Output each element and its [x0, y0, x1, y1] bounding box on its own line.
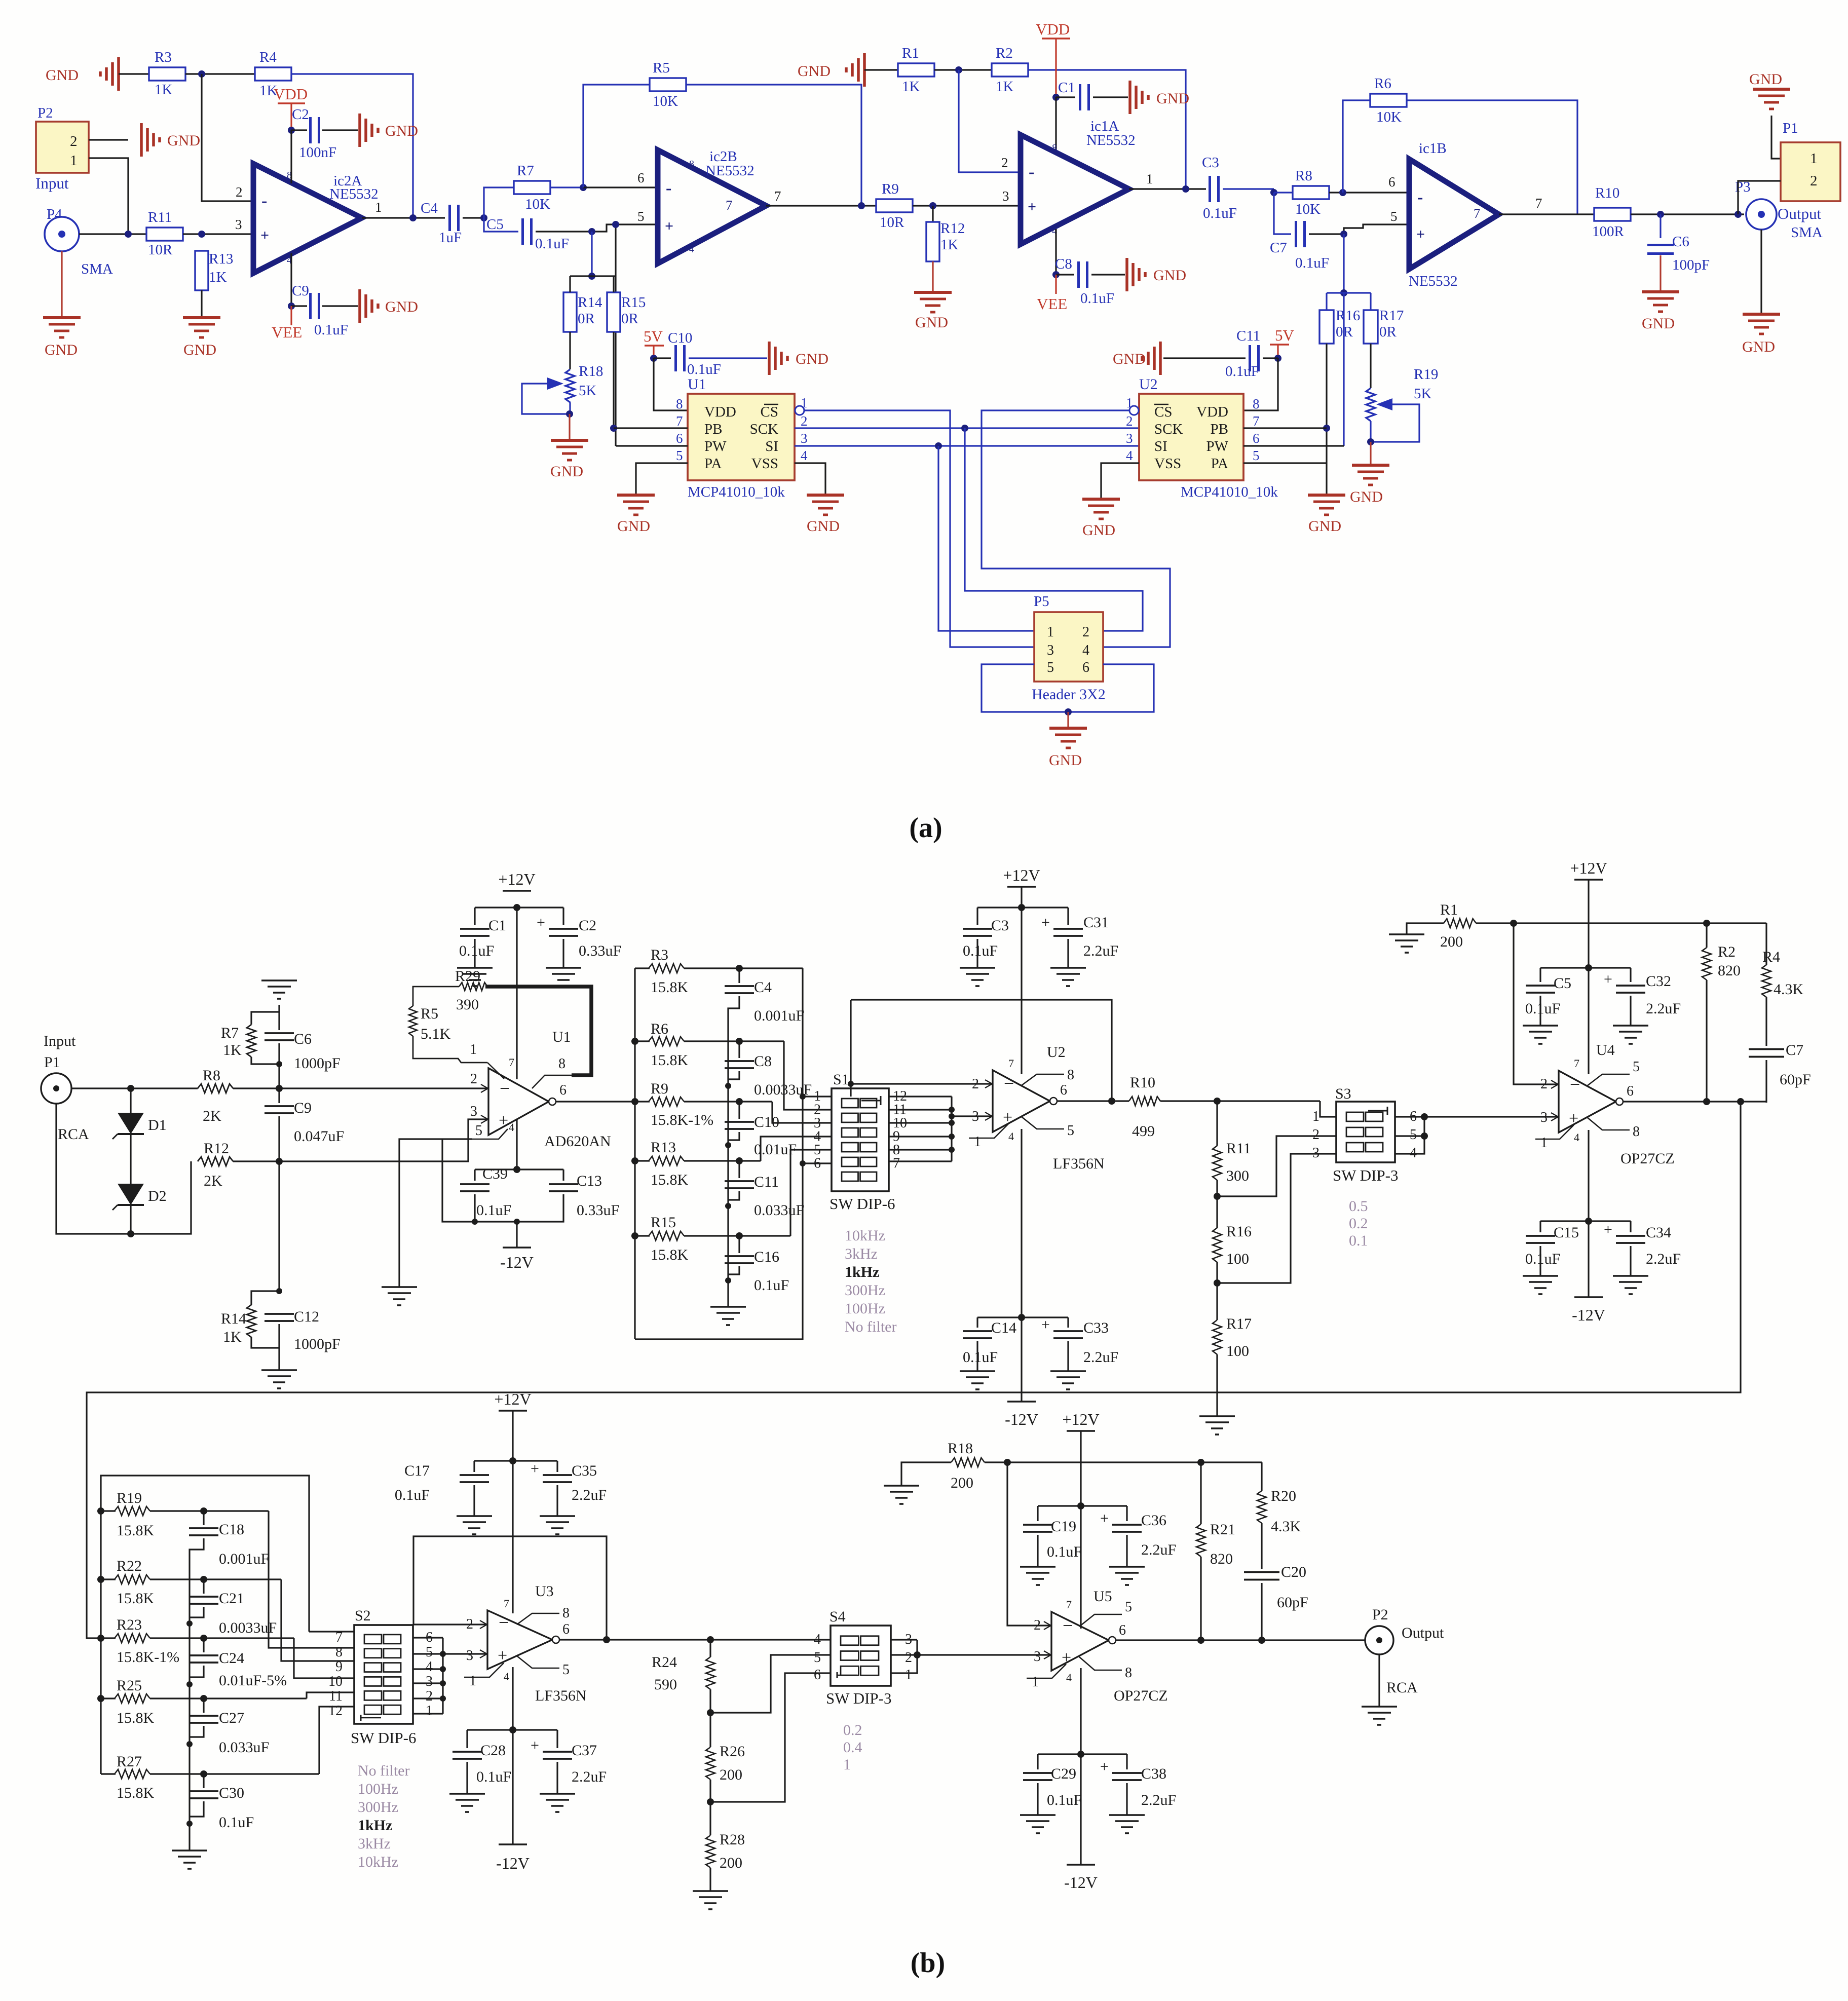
svg-text:4: 4 — [1574, 1131, 1579, 1144]
svg-text:C3: C3 — [1202, 155, 1219, 171]
node PB junction (U2) — [1323, 425, 1330, 432]
node C9/VEE — [288, 303, 295, 310]
svg-text:R3: R3 — [651, 947, 668, 963]
svg-text:R5: R5 — [653, 60, 670, 76]
svg-text:0.1uF: 0.1uF — [963, 1349, 998, 1366]
svg-text:R19: R19 — [117, 1490, 142, 1506]
resistor R21 (820) — [1200, 1462, 1201, 1524]
wire C11 to node — [1263, 357, 1278, 359]
svg-text:+: + — [537, 914, 545, 931]
node C1 — [1052, 94, 1060, 101]
node R2b top — [1703, 920, 1710, 927]
svg-text:2: 2 — [426, 1688, 433, 1704]
capacitor C6 (1000pF) — [278, 1012, 280, 1030]
svg-text:8: 8 — [1125, 1665, 1132, 1681]
svg-text:3: 3 — [426, 1674, 433, 1689]
U4 pin8 stub — [1587, 1117, 1630, 1130]
svg-text:C38: C38 — [1141, 1765, 1166, 1782]
wire branch down to C5 — [484, 218, 518, 232]
svg-text:GND: GND — [167, 132, 200, 149]
node U1 PB — [610, 425, 617, 432]
capacitor C19 (0.1uF) — [1037, 1506, 1038, 1521]
svg-text:+: + — [665, 218, 673, 235]
capacitor C18 (0.001uF) — [203, 1511, 204, 1525]
svg-text:GND: GND — [796, 351, 828, 367]
svg-text:6: 6 — [676, 431, 683, 446]
svg-text:+: + — [1041, 1316, 1050, 1333]
svg-text:0.1uF: 0.1uF — [314, 322, 348, 338]
capacitor C37 (2.2uF) — [556, 1730, 558, 1748]
ground GND (P4) — [61, 317, 62, 318]
wire R27 row — [150, 1773, 319, 1775]
wire R3 row — [684, 967, 803, 969]
svg-text:-12V: -12V — [1064, 1873, 1098, 1892]
svg-text:+: + — [1041, 914, 1050, 931]
svg-text:7: 7 — [1535, 196, 1542, 211]
wire U1 CS to P5 — [804, 410, 1034, 647]
svg-text:GND: GND — [550, 463, 583, 480]
svg-text:2.2uF: 2.2uF — [1141, 1541, 1176, 1558]
ground GND (C2) — [358, 114, 361, 147]
ground (C2) — [562, 939, 564, 968]
svg-text:6: 6 — [562, 1621, 570, 1637]
ground GND (R12) — [932, 291, 933, 293]
wire R17 to ground — [1216, 1354, 1218, 1416]
svg-text:8: 8 — [1633, 1124, 1640, 1140]
svg-text:5V: 5V — [1275, 326, 1295, 344]
node C9 top — [276, 1085, 283, 1092]
wire pin6 into ic2B — [583, 186, 658, 188]
wire C7b to output row — [1765, 1060, 1767, 1103]
capacitor C29 (0.1uF) — [1037, 1754, 1038, 1769]
potentiometer R18 5K — [565, 369, 575, 402]
svg-text:0.1uF: 0.1uF — [1225, 363, 1259, 380]
svg-text:C32: C32 — [1646, 973, 1671, 990]
resistor R22 (15.8K) — [97, 1576, 104, 1583]
svg-text:R13: R13 — [651, 1139, 676, 1156]
wire fan R22 to S2 pin9 — [281, 1579, 354, 1661]
svg-text:R12: R12 — [940, 220, 965, 237]
svg-text:VDD: VDD — [1036, 20, 1070, 38]
svg-text:590: 590 — [654, 1676, 677, 1693]
svg-text:SMA: SMA — [81, 261, 113, 277]
svg-text:5: 5 — [1067, 1123, 1074, 1139]
wire C14/C33 rail — [977, 1316, 1068, 1318]
svg-text:R10: R10 — [1130, 1074, 1155, 1091]
svg-text:60pF: 60pF — [1780, 1071, 1811, 1088]
resistor R17 — [1364, 310, 1378, 344]
svg-text:15.8K: 15.8K — [651, 979, 689, 996]
svg-text:P2: P2 — [37, 105, 53, 121]
node R7 bottom — [276, 1061, 282, 1067]
wire -12V stem (U5) — [1080, 1668, 1081, 1754]
svg-text:6: 6 — [1253, 431, 1260, 446]
svg-text:S2: S2 — [355, 1607, 371, 1624]
resistor R9 — [876, 199, 913, 212]
svg-text:-12V: -12V — [1005, 1410, 1038, 1428]
wire to pin2 ic1A — [959, 70, 1021, 172]
svg-text:R15: R15 — [651, 1214, 676, 1231]
capacitor C16 (0.1uF) — [738, 1236, 740, 1253]
svg-text:MCP41010_10k: MCP41010_10k — [688, 484, 785, 500]
ground (P2) — [1362, 1706, 1397, 1708]
op-amp U3 LF356N — [487, 1610, 552, 1669]
wire R18 to GND — [569, 414, 570, 440]
svg-text:No filter: No filter — [358, 1762, 409, 1779]
wire stage2 top rail — [101, 1476, 309, 1632]
svg-text:Output: Output — [1778, 205, 1822, 222]
wire SCK to P5 pin2 — [965, 428, 1143, 631]
svg-text:R7: R7 — [221, 1025, 239, 1041]
wire R19 to GND — [1370, 442, 1371, 465]
wire ic2B output row — [766, 205, 877, 206]
wire inter-stage link — [87, 1102, 1741, 1638]
ground (C35) — [540, 1515, 575, 1517]
svg-text:GND: GND — [807, 518, 840, 535]
U3 pin8 stub — [517, 1613, 559, 1625]
svg-text:100: 100 — [1226, 1343, 1249, 1360]
svg-text:+: + — [499, 1111, 508, 1130]
capacitor C14 (0.1uF) — [976, 1317, 978, 1328]
capacitor C21 (0.0033uF) — [203, 1579, 204, 1594]
resistor R5 (5.1K) — [409, 1006, 417, 1036]
svg-text:C4: C4 — [421, 200, 438, 216]
svg-text:R3: R3 — [155, 49, 172, 65]
node R11/R13 junction — [198, 231, 205, 238]
ground GND (P3) — [1760, 313, 1762, 315]
svg-text:0.1uF: 0.1uF — [963, 942, 998, 959]
wire SCK bus — [795, 427, 1139, 429]
bold gain loop (U1) — [485, 987, 591, 1075]
svg-text:R25: R25 — [117, 1677, 142, 1694]
svg-text:R4: R4 — [1762, 949, 1780, 965]
svg-text:1: 1 — [1540, 1135, 1548, 1151]
svg-text:R9: R9 — [882, 181, 899, 197]
wire C6 to input row — [278, 1043, 280, 1088]
svg-text:2: 2 — [905, 1650, 912, 1666]
svg-text:7: 7 — [1066, 1598, 1072, 1611]
svg-text:R18: R18 — [579, 363, 603, 380]
wire fan R9 to S1 pin3 — [772, 1102, 832, 1123]
ground GND (U1 PA) — [635, 494, 636, 496]
wire R28 to ground — [709, 1868, 711, 1891]
ground GND (P5) — [1067, 727, 1069, 729]
node SI tap — [935, 442, 942, 449]
resistor R17b (100) — [1213, 1320, 1222, 1354]
svg-text:0.5: 0.5 — [1349, 1198, 1368, 1215]
wire U2 PB to R16 net — [1243, 427, 1327, 429]
svg-text:2: 2 — [1312, 1127, 1319, 1143]
wire R13 to GND — [201, 290, 202, 318]
U5 pin8 stub — [1079, 1657, 1122, 1670]
capacitor C8 (0.0033uF) — [738, 1041, 740, 1058]
svg-text:SCK: SCK — [750, 421, 778, 437]
wire to U5 pin2 — [1007, 1462, 1051, 1626]
wire R16/R17 top connector — [1327, 292, 1371, 293]
svg-text:0R: 0R — [1379, 324, 1397, 340]
node C2/VDD — [288, 127, 295, 134]
pin5 ref stub — [472, 1129, 508, 1139]
wire R15 top — [613, 276, 614, 292]
wire to R14/R15 junction — [591, 232, 592, 276]
node C6/P3 — [1657, 211, 1664, 218]
svg-text:1K: 1K — [223, 1042, 242, 1059]
wire P2 pin1 to input node — [89, 158, 128, 234]
ground (stage2 caps) — [172, 1849, 207, 1852]
op-amp ic2A NE5532 — [253, 164, 362, 273]
capacitor C3b (0.1uF) — [976, 908, 978, 925]
svg-text:Output: Output — [1402, 1625, 1444, 1641]
svg-text:R5: R5 — [421, 1005, 438, 1022]
svg-text:0.2: 0.2 — [1349, 1215, 1368, 1232]
wire R6 row — [684, 1040, 784, 1042]
svg-text:C4: C4 — [754, 979, 772, 996]
zener diode D1 — [130, 1088, 131, 1113]
capacitor C27 (0.033uF) — [203, 1698, 204, 1713]
wire pin8 stem ic1A — [1055, 97, 1057, 155]
svg-text:LF356N: LF356N — [535, 1687, 587, 1704]
svg-text:10: 10 — [328, 1674, 343, 1689]
node C10/5V — [650, 355, 657, 362]
svg-text:C30: C30 — [219, 1785, 244, 1801]
svg-text:C11: C11 — [754, 1174, 779, 1190]
resistor R18b (200) — [901, 1462, 951, 1486]
node R12 junction — [929, 202, 936, 209]
svg-text:C39: C39 — [482, 1165, 508, 1182]
svg-text:1: 1 — [905, 1667, 912, 1683]
svg-text:1kHz: 1kHz — [358, 1817, 392, 1834]
wire C12 to GND — [278, 1324, 280, 1370]
svg-text:2: 2 — [1034, 1617, 1041, 1633]
svg-text:R1: R1 — [1440, 901, 1458, 918]
wire R19 row — [150, 1510, 269, 1512]
wire R7 to pin6 node — [550, 186, 583, 188]
svg-text:SW DIP-3: SW DIP-3 — [1333, 1166, 1398, 1184]
wire R14 to R18 — [569, 332, 571, 369]
ground (C15) — [1523, 1275, 1558, 1277]
resistor R1b (200) — [1407, 923, 1444, 934]
node D1 tap — [127, 1085, 134, 1092]
wire U1 PW — [616, 445, 688, 446]
power -12V (U5) — [1080, 1754, 1081, 1865]
svg-text:VEE: VEE — [272, 323, 302, 341]
svg-text:3: 3 — [1126, 431, 1133, 446]
wire C19/C36 rail — [1038, 1505, 1127, 1506]
svg-text:−: − — [500, 1078, 510, 1099]
wire fan S2 pin7 — [309, 1631, 354, 1632]
U3 output circle — [552, 1636, 559, 1643]
svg-text:MCP41010_10k: MCP41010_10k — [1181, 484, 1278, 500]
capacitor C5 — [521, 218, 524, 245]
U2 pin8 stub — [1022, 1074, 1064, 1085]
svg-text:R8: R8 — [1295, 168, 1312, 184]
node C29 rail — [1077, 1751, 1084, 1758]
wires S1 right pins to bus — [889, 1096, 952, 1097]
svg-text:SCK: SCK — [1154, 421, 1183, 437]
wire RCA shell ground run — [56, 1104, 191, 1234]
svg-text:10kHz: 10kHz — [358, 1854, 398, 1870]
resistor R5 — [583, 85, 650, 187]
svg-text:SW DIP-6: SW DIP-6 — [351, 1729, 416, 1747]
svg-text:1: 1 — [1810, 150, 1818, 167]
ground (C3b) — [960, 967, 995, 969]
svg-text:2.2uF: 2.2uF — [1141, 1792, 1176, 1808]
wire U1 PB — [614, 427, 688, 429]
svg-text:U3: U3 — [535, 1583, 554, 1600]
svg-text:6: 6 — [814, 1667, 821, 1683]
svg-text:3: 3 — [1047, 643, 1054, 658]
node R5 feedback — [858, 202, 865, 209]
U4 pin1 stub — [1535, 1125, 1574, 1139]
svg-text:−: − — [1570, 1074, 1580, 1094]
svg-text:15.8K: 15.8K — [117, 1710, 155, 1726]
wire C5/C32 rail — [1540, 967, 1631, 968]
resistor R28 (200) — [706, 1835, 715, 1868]
svg-text:R12: R12 — [204, 1140, 229, 1157]
svg-text:PW: PW — [704, 438, 727, 455]
svg-text:0R: 0R — [621, 311, 639, 327]
svg-text:−: − — [1004, 1073, 1014, 1093]
wire C39/C13 top rail — [475, 1168, 563, 1170]
ground (C37) — [540, 1793, 575, 1795]
svg-text:C6: C6 — [294, 1031, 312, 1047]
resistor R23 (15.8K-1%) — [97, 1635, 104, 1642]
op-amp ic2B NE5532 — [658, 150, 766, 263]
svg-text:R2: R2 — [1718, 943, 1736, 960]
wire R2b to output row — [1706, 980, 1707, 1103]
svg-text:3: 3 — [801, 431, 808, 446]
svg-text:GND: GND — [385, 123, 418, 139]
svg-text:15.8K: 15.8K — [651, 1172, 689, 1188]
svg-text:0.033uF: 0.033uF — [754, 1202, 804, 1219]
svg-text:0.1uF: 0.1uF — [395, 1487, 430, 1503]
svg-text:300: 300 — [1226, 1167, 1249, 1184]
wire fan R19 to S2 pin8 — [269, 1511, 354, 1648]
svg-text:2K: 2K — [203, 1108, 221, 1124]
resistor R14 — [563, 292, 577, 332]
svg-text:11: 11 — [329, 1688, 343, 1704]
node ground run — [127, 1230, 134, 1237]
pin4 stem (-12V) — [516, 1119, 517, 1169]
wire U1 PA to GND — [636, 463, 688, 495]
wire R13 row — [684, 1160, 761, 1161]
ground (C1) — [474, 939, 475, 968]
svg-text:0.1uF: 0.1uF — [1080, 290, 1114, 307]
node C1 rail — [513, 904, 520, 911]
resistor R8 — [1274, 192, 1293, 193]
ground GND (C11) — [1159, 342, 1162, 375]
svg-text:+12V: +12V — [494, 1390, 531, 1408]
wire C3 to R8/C7 branch — [1223, 188, 1274, 190]
svg-text:PB: PB — [1211, 421, 1228, 437]
svg-text:C3: C3 — [991, 917, 1009, 934]
ground GND (top-left, at R3) — [117, 57, 120, 91]
svg-text:0.001uF: 0.001uF — [754, 1007, 804, 1024]
wire to U4 pin2 — [1514, 923, 1559, 1084]
svg-text:C27: C27 — [219, 1710, 244, 1726]
node C14 rail — [1018, 1314, 1025, 1321]
svg-text:4: 4 — [814, 1632, 821, 1647]
svg-text:200: 200 — [1440, 933, 1463, 950]
wire U2 PA — [1243, 462, 1327, 464]
wire pin8 to node — [290, 130, 292, 183]
ground (R28) — [693, 1890, 728, 1892]
svg-text:0.1uF: 0.1uF — [535, 236, 569, 252]
svg-text:7: 7 — [726, 198, 733, 213]
resistor R24 (590) — [709, 1640, 711, 1657]
svg-text:1000pF: 1000pF — [294, 1055, 341, 1072]
wire pin4 to C9 node — [290, 253, 292, 306]
ground (C34) — [1613, 1275, 1648, 1277]
svg-text:100nF: 100nF — [299, 144, 336, 161]
svg-text:C5: C5 — [1554, 975, 1571, 992]
svg-text:4: 4 — [689, 244, 694, 255]
wire R14 top — [569, 276, 571, 292]
ground (C31) — [1050, 967, 1086, 969]
svg-text:6: 6 — [1627, 1083, 1634, 1099]
power -12V (U4) — [1588, 1221, 1589, 1297]
svg-text:3: 3 — [972, 1109, 979, 1124]
svg-text:+12V: +12V — [1570, 859, 1607, 877]
svg-text:8: 8 — [1253, 396, 1260, 411]
svg-text:1: 1 — [1312, 1109, 1319, 1124]
svg-text:1K: 1K — [940, 237, 959, 253]
svg-text:8: 8 — [676, 396, 683, 411]
svg-text:0.33uF: 0.33uF — [579, 942, 621, 959]
svg-text:5: 5 — [562, 1662, 570, 1678]
svg-text:OP27CZ: OP27CZ — [1114, 1687, 1168, 1704]
svg-text:820: 820 — [1718, 962, 1741, 979]
wire fan R25 to S2 pin11 — [307, 1692, 354, 1698]
svg-text:GND: GND — [1049, 752, 1082, 769]
resistor R19 (15.8K) — [97, 1507, 104, 1515]
svg-text:7: 7 — [1474, 206, 1481, 221]
wire R9 row — [684, 1101, 772, 1102]
node SCK tap — [961, 425, 968, 432]
svg-text:60pF: 60pF — [1277, 1594, 1308, 1611]
svg-text:+: + — [1100, 1758, 1109, 1775]
svg-text:2.2uF: 2.2uF — [572, 1768, 607, 1785]
wire R1b rail — [1476, 922, 1766, 924]
svg-text:15.8K: 15.8K — [117, 1785, 155, 1801]
svg-text:U2: U2 — [1047, 1044, 1066, 1061]
wire U2 feedback loop — [851, 1083, 993, 1084]
ground GND (C8) — [1125, 258, 1128, 291]
svg-text:3: 3 — [1540, 1110, 1548, 1125]
svg-text:10K: 10K — [1295, 201, 1321, 217]
wire fan R27 to S2 pin12 — [319, 1707, 354, 1774]
svg-text:7: 7 — [509, 1056, 514, 1069]
svg-text:R16: R16 — [1226, 1223, 1252, 1240]
svg-text:GND: GND — [1082, 522, 1115, 539]
svg-text:SI: SI — [1154, 438, 1167, 455]
svg-text:C34: C34 — [1646, 1224, 1671, 1241]
svg-text:C16: C16 — [754, 1249, 779, 1265]
svg-text:3: 3 — [470, 1104, 477, 1119]
svg-text:PW: PW — [1206, 438, 1229, 455]
ground (C14) — [960, 1370, 995, 1372]
svg-text:10K: 10K — [653, 93, 678, 109]
capacitor C30 (0.1uF) — [203, 1774, 204, 1788]
U4 output circle — [1616, 1098, 1623, 1105]
svg-text:R23: R23 — [117, 1616, 142, 1633]
resistor R16 — [1319, 310, 1334, 344]
node R24/R26 — [709, 1689, 711, 1747]
node U4 pin2 drop — [1510, 920, 1517, 927]
svg-text:C2: C2 — [292, 106, 309, 123]
wire R25 row — [150, 1697, 307, 1699]
svg-text:6: 6 — [1060, 1082, 1067, 1098]
